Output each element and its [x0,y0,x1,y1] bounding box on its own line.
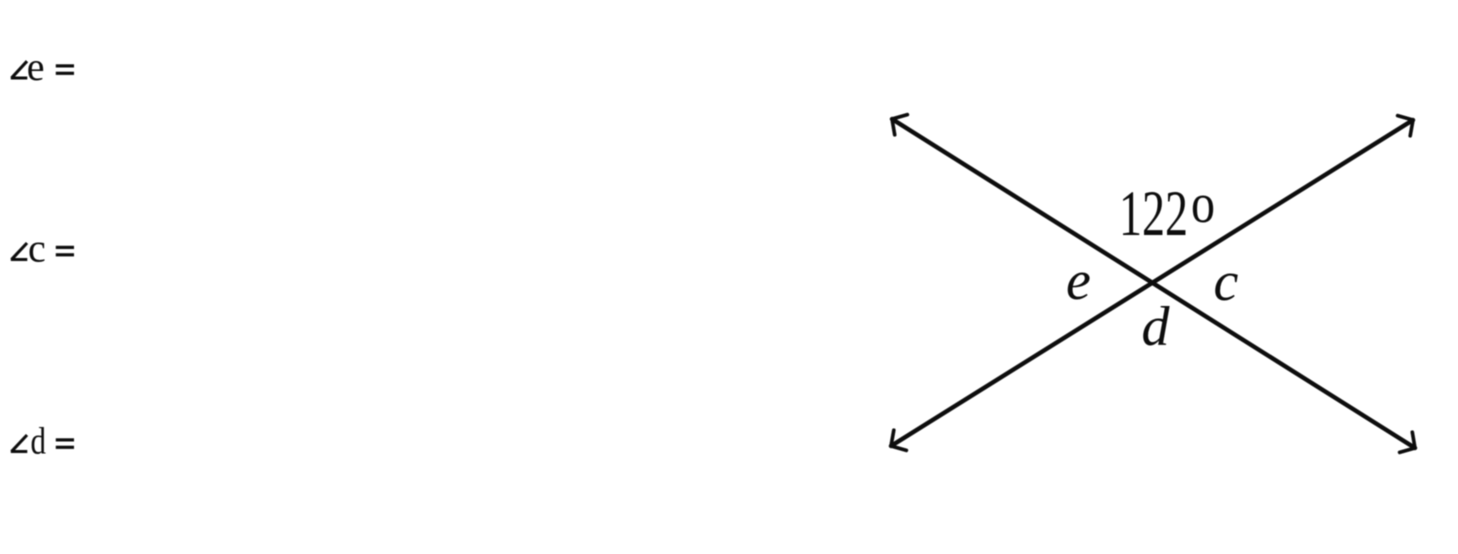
svg-text:o: o [1191,173,1215,235]
svg-text:122: 122 [1119,178,1188,250]
svg-text:d: d [31,421,47,463]
svg-text:d: d [1142,296,1171,358]
svg-text:e: e [1066,250,1091,312]
svg-text:e: e [27,44,45,89]
svg-text:c: c [1214,251,1239,313]
svg-text:c: c [28,226,46,271]
